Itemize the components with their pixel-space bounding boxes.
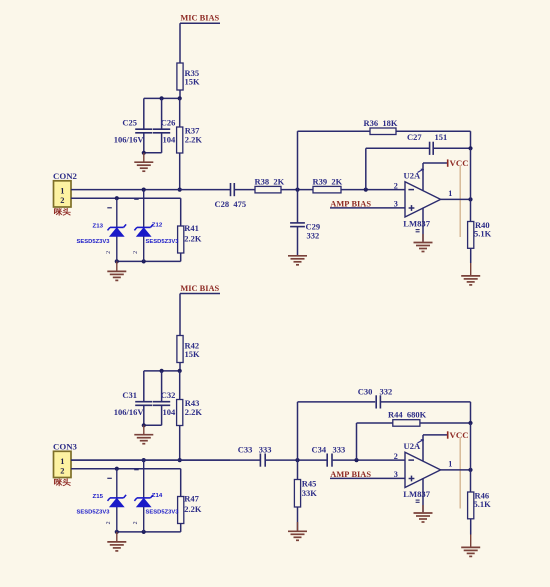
svg-text:VCC: VCC bbox=[450, 430, 469, 440]
svg-text:2: 2 bbox=[133, 521, 139, 524]
svg-text:R41: R41 bbox=[184, 223, 199, 233]
svg-text:R36 18K: R36 18K bbox=[364, 118, 398, 128]
svg-text:2: 2 bbox=[106, 251, 112, 254]
svg-text:C31: C31 bbox=[122, 390, 137, 400]
svg-text:1: 1 bbox=[60, 457, 64, 466]
svg-text:R39 2K: R39 2K bbox=[313, 177, 343, 187]
svg-text:SESD5Z3V3: SESD5Z3V3 bbox=[146, 239, 180, 245]
svg-text:Z12: Z12 bbox=[152, 222, 163, 228]
svg-text:1: 1 bbox=[448, 189, 452, 198]
svg-text:2.2K: 2.2K bbox=[184, 234, 202, 244]
svg-text:5.1K: 5.1K bbox=[474, 499, 492, 509]
svg-text:MIC BIAS: MIC BIAS bbox=[180, 284, 219, 293]
svg-text:33K: 33K bbox=[302, 488, 318, 498]
svg-text:2: 2 bbox=[106, 521, 112, 524]
svg-text:333: 333 bbox=[259, 444, 272, 454]
svg-text:C27: C27 bbox=[407, 132, 422, 142]
svg-text:2: 2 bbox=[60, 196, 64, 205]
svg-text:CON3: CON3 bbox=[53, 441, 78, 451]
svg-text:5.1K: 5.1K bbox=[474, 228, 492, 238]
svg-text:C26: C26 bbox=[161, 117, 176, 127]
svg-text:SESD5Z3V3: SESD5Z3V3 bbox=[77, 239, 111, 245]
svg-text:2: 2 bbox=[394, 452, 398, 461]
svg-text:2.2K: 2.2K bbox=[184, 504, 202, 514]
svg-text:SESD5Z3V3: SESD5Z3V3 bbox=[77, 509, 111, 515]
svg-text:VCC: VCC bbox=[450, 158, 469, 168]
svg-text:LM837: LM837 bbox=[403, 218, 430, 228]
svg-text:SESD5Z3V3: SESD5Z3V3 bbox=[146, 509, 180, 515]
svg-text:R38 2K: R38 2K bbox=[255, 177, 285, 187]
svg-text:332: 332 bbox=[307, 230, 320, 240]
svg-text:C34: C34 bbox=[312, 444, 327, 454]
svg-text:1: 1 bbox=[448, 460, 452, 469]
svg-text:332: 332 bbox=[380, 386, 393, 396]
svg-text:151: 151 bbox=[435, 132, 448, 142]
svg-text:104: 104 bbox=[163, 135, 177, 145]
svg-text:106/16V: 106/16V bbox=[114, 407, 145, 417]
svg-text:C32: C32 bbox=[161, 390, 176, 400]
svg-text:C28 475: C28 475 bbox=[215, 199, 247, 209]
svg-text:Z14: Z14 bbox=[152, 493, 163, 499]
svg-text:104: 104 bbox=[163, 407, 177, 417]
svg-text:C33: C33 bbox=[238, 444, 253, 454]
svg-text:CON2: CON2 bbox=[53, 171, 78, 181]
svg-text:Z13: Z13 bbox=[93, 223, 104, 229]
svg-text:2: 2 bbox=[133, 251, 139, 254]
svg-text:LM837: LM837 bbox=[403, 489, 430, 499]
svg-text:MIC BIAS: MIC BIAS bbox=[180, 14, 219, 23]
svg-text:2: 2 bbox=[60, 466, 64, 475]
svg-text:AMP BIAS: AMP BIAS bbox=[330, 199, 371, 208]
svg-text:2.2K: 2.2K bbox=[185, 407, 203, 417]
svg-text:1: 1 bbox=[60, 186, 64, 195]
svg-text:AMP BIAS: AMP BIAS bbox=[330, 470, 371, 479]
svg-text:C25: C25 bbox=[122, 117, 137, 127]
svg-text:106/16V: 106/16V bbox=[114, 135, 145, 145]
svg-text:15K: 15K bbox=[185, 77, 201, 87]
svg-text:15K: 15K bbox=[185, 349, 201, 359]
svg-text:2: 2 bbox=[394, 181, 398, 190]
svg-text:R44 680K: R44 680K bbox=[388, 410, 427, 420]
svg-text:2.2K: 2.2K bbox=[185, 135, 203, 145]
svg-text:C30: C30 bbox=[358, 386, 373, 396]
svg-text:咪头: 咪头 bbox=[54, 478, 72, 487]
svg-text:咪头: 咪头 bbox=[54, 207, 72, 216]
svg-text:R47: R47 bbox=[184, 494, 199, 504]
svg-text:333: 333 bbox=[333, 444, 346, 454]
svg-text:Z15: Z15 bbox=[93, 494, 104, 500]
